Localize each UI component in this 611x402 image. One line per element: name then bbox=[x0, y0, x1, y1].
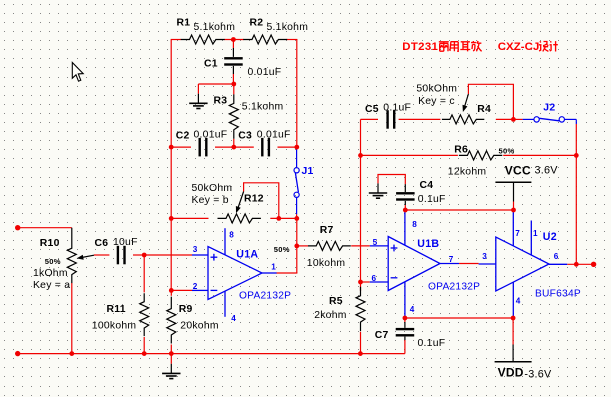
resistor R3 bbox=[229, 94, 238, 138]
wire C4 top lead bbox=[404, 184, 406, 192]
value R10 1kOhm bbox=[33, 268, 68, 279]
svg-text:50kOhm: 50kOhm bbox=[416, 83, 457, 94]
wire U1B pin6 stub red bbox=[361, 281, 370, 283]
title CJK liang bbox=[439, 42, 449, 51]
op-amp U1B plus bbox=[391, 245, 398, 252]
potentiometer R4 bbox=[442, 115, 484, 124]
svg-text:1: 1 bbox=[533, 229, 538, 238]
label R11 bbox=[107, 304, 126, 315]
label C1 bbox=[204, 59, 218, 70]
svg-text:R10: R10 bbox=[40, 238, 60, 249]
pin 4 stub U2 bbox=[512, 282, 514, 316]
value R5 2kohm bbox=[314, 310, 346, 321]
svg-text:7: 7 bbox=[515, 229, 520, 238]
node R6-J2 bbox=[574, 153, 579, 158]
svg-text:5.1kohm: 5.1kohm bbox=[194, 22, 236, 33]
value U2 BUF634P bbox=[535, 288, 581, 299]
title CJK er bbox=[460, 42, 470, 52]
wire C7 top lead bbox=[404, 318, 406, 328]
value U1B OPA2132P bbox=[428, 281, 480, 292]
resistor R6 bbox=[459, 151, 502, 160]
wire R1 left bbox=[171, 39, 181, 41]
svg-text:0.1uF: 0.1uF bbox=[418, 194, 446, 205]
node C3-J1 bbox=[294, 145, 299, 150]
svg-text:C2: C2 bbox=[176, 130, 190, 141]
value R12 Key = b bbox=[192, 195, 229, 206]
node U2 out-R6 bbox=[574, 262, 579, 267]
svg-text:2kohm: 2kohm bbox=[314, 310, 346, 321]
node C6-R11-pin3 bbox=[142, 253, 147, 258]
wire C7 node to VDD node bbox=[405, 317, 513, 319]
wire node to U1A pin3 bbox=[144, 254, 192, 256]
svg-text:C1: C1 bbox=[204, 59, 218, 70]
value R4 Key = c bbox=[418, 96, 455, 107]
wire C6 to node bbox=[133, 254, 144, 256]
pin 5 stub U1B bbox=[370, 245, 388, 247]
pin label 4 U2 bbox=[516, 297, 521, 306]
wire R7 left bbox=[297, 245, 308, 247]
title CJK she bbox=[539, 41, 549, 51]
svg-text:C5: C5 bbox=[365, 104, 379, 115]
wire J2 right stub bbox=[565, 119, 577, 124]
percent R12 50% bbox=[274, 245, 290, 254]
svg-text:1kOhm: 1kOhm bbox=[33, 268, 68, 279]
capacitor C2 bbox=[199, 138, 208, 157]
wire C2-C3 mid right bbox=[234, 146, 254, 148]
svg-text:10kohm: 10kohm bbox=[307, 258, 345, 269]
wire ground2 elbow bbox=[378, 175, 405, 185]
pin label 1 U2 bbox=[533, 229, 538, 238]
node R1-R2-C1 bbox=[231, 37, 236, 42]
svg-text:6: 6 bbox=[554, 252, 559, 261]
pin label 7 U1B bbox=[449, 255, 454, 264]
wire R12 right bbox=[270, 217, 297, 219]
op-amp U1B bbox=[388, 237, 440, 291]
pin 3 stub U1A bbox=[192, 254, 208, 256]
terminal rail left bbox=[15, 351, 20, 356]
wire R11 bottom bbox=[143, 337, 145, 354]
label C7 bbox=[375, 330, 389, 341]
op-amp U1A minus bbox=[211, 289, 218, 291]
pin label 6 U2 bbox=[554, 252, 559, 261]
wire C1 top lead bbox=[232, 40, 234, 57]
wire R1-R2 middle bbox=[224, 39, 244, 41]
wiper R10 bbox=[77, 255, 94, 260]
svg-text:4: 4 bbox=[516, 297, 521, 306]
wire R4 wiper loop bbox=[468, 84, 513, 119]
label R1 bbox=[177, 18, 191, 29]
wire R10 wiper to C6 bbox=[94, 254, 109, 256]
svg-text:5.1kohm: 5.1kohm bbox=[267, 22, 309, 33]
svg-text:R7: R7 bbox=[320, 225, 334, 236]
resistor R5 bbox=[356, 287, 365, 331]
resistor R9 bbox=[167, 297, 176, 344]
svg-text:R9: R9 bbox=[179, 304, 193, 315]
capacitor C3 bbox=[261, 138, 270, 157]
svg-text:50kOhm: 50kOhm bbox=[192, 183, 233, 194]
wire R6 left bbox=[361, 154, 458, 156]
power VDD symbol bbox=[495, 345, 532, 362]
pin 4 stub U1A bbox=[224, 291, 226, 317]
wire R5 bottom bbox=[360, 332, 362, 354]
value C3 0.01uF bbox=[257, 129, 291, 140]
svg-text:C6: C6 bbox=[95, 238, 109, 249]
svg-text:OPA2132P: OPA2132P bbox=[239, 290, 291, 301]
wire C7 bottom lead bbox=[404, 337, 406, 354]
wire R3 bottom bbox=[233, 139, 235, 147]
svg-text:2: 2 bbox=[193, 282, 198, 291]
label J1 bbox=[302, 166, 314, 177]
pin 3 stub U2 bbox=[479, 263, 496, 265]
pin 4 stub U1B bbox=[404, 282, 406, 317]
svg-text:R3: R3 bbox=[214, 96, 228, 107]
svg-text:OPA2132P: OPA2132P bbox=[428, 281, 480, 292]
value C6 10uF bbox=[113, 237, 138, 248]
svg-text:R1: R1 bbox=[177, 18, 191, 29]
svg-text:U1A: U1A bbox=[236, 248, 258, 260]
svg-text:12kohm: 12kohm bbox=[448, 167, 486, 178]
svg-text:CXZ-CJ: CXZ-CJ bbox=[498, 41, 540, 53]
wire U2 output right bbox=[567, 263, 593, 265]
svg-text:BUF634P: BUF634P bbox=[535, 288, 581, 299]
wire ground 3 stem bbox=[170, 354, 172, 364]
pin label 3 U2 bbox=[482, 252, 487, 261]
svg-text:20kohm: 20kohm bbox=[180, 320, 218, 331]
pin label 8 U1B bbox=[412, 220, 417, 229]
pin 8 stub U1B bbox=[404, 211, 406, 246]
capacitor C6 bbox=[117, 246, 126, 264]
op-amp U1A plus bbox=[211, 254, 218, 261]
wire R9 top bbox=[170, 290, 172, 295]
value R11 100kohm bbox=[92, 320, 137, 331]
pin label 5 U1B bbox=[373, 238, 378, 247]
label C5 bbox=[365, 104, 379, 115]
svg-text:3.6V: 3.6V bbox=[535, 164, 559, 176]
title CJK fang bbox=[471, 41, 482, 51]
wire R6 right bbox=[503, 154, 576, 156]
potentiometer R12 bbox=[218, 214, 261, 223]
svg-text:J1: J1 bbox=[302, 166, 314, 177]
ground 3 bbox=[162, 364, 180, 379]
value R9 20kohm bbox=[180, 320, 218, 331]
label R12 bbox=[244, 194, 264, 205]
pin 2 stub U1A bbox=[192, 289, 208, 291]
wire VCC stem red bbox=[513, 202, 515, 211]
svg-text:0.01uF: 0.01uF bbox=[194, 129, 228, 140]
wire J2 left stub bbox=[513, 118, 534, 120]
node R9-pin2 bbox=[169, 288, 174, 293]
label R4 bbox=[477, 104, 491, 115]
capacitor C7 bbox=[396, 328, 415, 337]
svg-text:C3: C3 bbox=[238, 130, 252, 141]
resistor R1 bbox=[181, 35, 225, 44]
pin label 4 U1A bbox=[231, 314, 236, 323]
wire J1 top stub bbox=[296, 150, 298, 168]
wire VDD stem red bbox=[512, 318, 514, 345]
switch J1 bbox=[294, 168, 299, 198]
value C7 0.1uF bbox=[418, 338, 446, 349]
node VDD-pin4 bbox=[511, 316, 516, 321]
pin 8 stub U1A bbox=[224, 228, 226, 255]
svg-text:4: 4 bbox=[231, 314, 236, 323]
svg-text:R5: R5 bbox=[329, 296, 343, 307]
svg-text:3: 3 bbox=[193, 245, 198, 254]
pin 1 stub U2 bbox=[530, 221, 532, 256]
wire C5 to R4 bbox=[399, 118, 441, 120]
pin label 2 U1A bbox=[193, 282, 198, 291]
value R12 50kOhm bbox=[192, 183, 233, 194]
svg-text:R12: R12 bbox=[244, 194, 264, 205]
label R9 bbox=[179, 304, 193, 315]
potentiometer R10 bbox=[67, 228, 76, 283]
svg-text:4: 4 bbox=[410, 305, 415, 314]
node R9-ground bbox=[169, 351, 174, 356]
title CJK ji bbox=[550, 41, 558, 51]
title text CXZ-CJ bbox=[498, 41, 540, 53]
svg-text:-3.6V: -3.6V bbox=[524, 369, 552, 381]
svg-text:0.01uF: 0.01uF bbox=[248, 67, 282, 78]
value C1 0.01uF bbox=[248, 67, 282, 78]
node R7 left bbox=[294, 244, 299, 249]
wire R10 bottom bbox=[71, 283, 73, 354]
pin 6 stub U1B bbox=[370, 281, 388, 283]
pin 7 stub U1B bbox=[440, 263, 459, 265]
svg-text:R6: R6 bbox=[454, 144, 468, 155]
svg-text:50%: 50% bbox=[274, 245, 290, 254]
node U1B pin6 bbox=[358, 280, 363, 285]
svg-text:50%: 50% bbox=[499, 147, 515, 156]
value R6 12kohm bbox=[448, 167, 486, 178]
wire R2 right bbox=[287, 39, 298, 41]
value R1 5.1kohm bbox=[194, 22, 236, 33]
node R12 left bbox=[169, 216, 174, 221]
node R12-J1 bbox=[294, 216, 299, 221]
pin 7 stub U2 bbox=[512, 211, 514, 246]
wire R7 right bbox=[351, 245, 370, 247]
wire net B vertical upper x=297 bbox=[296, 39, 298, 150]
label VCC bbox=[505, 163, 531, 177]
wire net B vertical lower x=297 bbox=[296, 218, 298, 273]
value C2 0.01uF bbox=[194, 129, 228, 140]
wire J1 bottom stub bbox=[296, 197, 298, 214]
wire C2 left bbox=[171, 146, 191, 148]
value R3 5.1kohm bbox=[242, 102, 284, 113]
label U1A bbox=[236, 248, 258, 260]
label C2 bbox=[176, 130, 190, 141]
value VCC 3.6V bbox=[535, 164, 559, 176]
node C5-R6 bbox=[358, 153, 363, 158]
svg-text:5.1kohm: 5.1kohm bbox=[242, 102, 284, 113]
title CJK yong bbox=[450, 42, 458, 52]
wire R12 wiper loop bbox=[244, 183, 279, 219]
wire R4 right bbox=[496, 118, 514, 120]
node R5 bottom bbox=[358, 351, 363, 356]
label U2 bbox=[543, 231, 557, 243]
op-amp U2 bbox=[496, 237, 549, 291]
pin label 8 U1A bbox=[229, 230, 234, 239]
capacitor C5 bbox=[386, 110, 395, 129]
wire C1 bottom lead bbox=[232, 66, 234, 84]
pin label 1 U1A bbox=[271, 262, 276, 271]
svg-text:Key = b: Key = b bbox=[192, 195, 229, 206]
node VCC-pin7 bbox=[511, 208, 516, 213]
ground 2 bbox=[369, 183, 387, 198]
mouse cursor bbox=[72, 63, 83, 82]
power VCC symbol bbox=[495, 182, 531, 201]
percent R4 50% bbox=[499, 147, 515, 156]
value U1A OPA2132P bbox=[239, 290, 291, 301]
svg-text:R2: R2 bbox=[250, 18, 264, 29]
svg-text:5: 5 bbox=[373, 238, 378, 247]
pin label 3 U1A bbox=[193, 245, 198, 254]
svg-text:VCC: VCC bbox=[505, 163, 531, 177]
wire R12 left bbox=[171, 217, 208, 219]
node R12 wiper bbox=[276, 216, 281, 221]
label R3 bbox=[214, 96, 228, 107]
wire C3 right bbox=[278, 146, 298, 148]
node C4-VCC wire bbox=[403, 208, 408, 213]
svg-text:100kohm: 100kohm bbox=[92, 320, 137, 331]
svg-text:50%: 50% bbox=[45, 257, 61, 266]
pin 6 stub U2 bbox=[549, 263, 567, 265]
wire ground rail bbox=[18, 353, 405, 355]
ground 1 bbox=[189, 94, 207, 109]
wiper R12 bbox=[236, 192, 244, 214]
terminal output bbox=[591, 262, 596, 267]
terminal input top bbox=[15, 225, 20, 230]
percent R10 50% bbox=[45, 257, 61, 266]
label C6 bbox=[95, 238, 109, 249]
wire R10 top bbox=[18, 227, 72, 229]
wire U1B out red bbox=[459, 263, 479, 265]
wire VCC node to C4 node bbox=[405, 209, 514, 211]
svg-text:0.1uF: 0.1uF bbox=[383, 103, 411, 114]
svg-text:C7: C7 bbox=[375, 330, 389, 341]
wire C2-C3 mid left bbox=[215, 146, 234, 148]
label R2 bbox=[250, 18, 264, 29]
resistor R11 bbox=[140, 293, 149, 336]
wire C4 bottom lead bbox=[404, 201, 406, 210]
svg-text:6: 6 bbox=[372, 274, 377, 283]
wire net D vertical x=576.3 bbox=[575, 124, 577, 264]
pin label 7 U2 bbox=[515, 229, 520, 238]
node R4-J2 bbox=[511, 117, 516, 122]
node R11 bottom bbox=[142, 351, 147, 356]
resistor R7 bbox=[308, 241, 351, 250]
pin label 6 U1B bbox=[372, 274, 377, 283]
value R2 5.1kohm bbox=[267, 22, 309, 33]
value R10 Key = a bbox=[33, 280, 70, 291]
label U1B bbox=[417, 238, 439, 250]
label R5 bbox=[329, 296, 343, 307]
value C4 0.1uF bbox=[418, 194, 446, 205]
node R10 bottom bbox=[69, 351, 74, 356]
wiper R4 bbox=[463, 94, 469, 112]
wire R9 bottom bbox=[170, 345, 172, 354]
op-amp U1A bbox=[208, 247, 262, 300]
title text DT231 bbox=[402, 41, 438, 53]
node C1-ground-R3 bbox=[231, 82, 236, 87]
label R7 bbox=[320, 225, 334, 236]
svg-text:1: 1 bbox=[271, 262, 276, 271]
svg-text:U1B: U1B bbox=[417, 238, 439, 250]
wire R3 top bbox=[233, 84, 235, 94]
capacitor C1 bbox=[224, 57, 243, 66]
wire C5 left bbox=[361, 118, 379, 120]
wire R11 top bbox=[143, 255, 145, 292]
switch J2 bbox=[534, 117, 565, 122]
node C7-pin4 bbox=[403, 316, 408, 321]
value R7 10kohm bbox=[307, 258, 345, 269]
op-amp U1B minus bbox=[391, 277, 398, 279]
capacitor C4 bbox=[396, 192, 415, 201]
label C4 bbox=[420, 180, 434, 191]
svg-text:J2: J2 bbox=[543, 102, 555, 113]
svg-text:0.1uF: 0.1uF bbox=[418, 338, 446, 349]
svg-text:8: 8 bbox=[229, 230, 234, 239]
label VDD bbox=[498, 366, 524, 380]
pin 1 stub U1A bbox=[262, 272, 277, 274]
svg-text:Key = c: Key = c bbox=[418, 96, 455, 107]
label C3 bbox=[238, 130, 252, 141]
value R4 50kOhm bbox=[416, 83, 457, 94]
wire to ground 1 bbox=[198, 84, 234, 94]
resistor R2 bbox=[243, 35, 287, 44]
value C5 0.1uF bbox=[383, 103, 411, 114]
svg-text:Key = a: Key = a bbox=[33, 280, 70, 291]
wire net A vertical x=171 bbox=[170, 40, 172, 291]
svg-text:C4: C4 bbox=[420, 180, 434, 191]
wire U1A output elbow bbox=[276, 272, 297, 274]
wire net C vertical x=360.5 bbox=[360, 119, 362, 291]
label J2 bbox=[543, 102, 555, 113]
svg-text:DT231: DT231 bbox=[402, 41, 438, 53]
value VDD -3.6V bbox=[524, 369, 552, 381]
label R6 bbox=[454, 144, 468, 155]
svg-text:10uF: 10uF bbox=[113, 237, 138, 248]
node C2 left bbox=[169, 145, 174, 150]
wire J1 to node bbox=[296, 214, 298, 218]
svg-text:R11: R11 bbox=[107, 304, 126, 315]
wire to U1A pin2 bbox=[171, 289, 192, 291]
svg-text:0.01uF: 0.01uF bbox=[257, 129, 291, 140]
node C2-C3-R3 bbox=[231, 145, 236, 150]
svg-text:U2: U2 bbox=[543, 231, 557, 243]
svg-text:7: 7 bbox=[449, 255, 454, 264]
svg-text:VDD: VDD bbox=[498, 366, 524, 380]
label R10 bbox=[40, 238, 60, 249]
svg-text:3: 3 bbox=[482, 252, 487, 261]
pin label 4 U1B bbox=[410, 305, 415, 314]
svg-text:8: 8 bbox=[412, 220, 417, 229]
svg-text:R4: R4 bbox=[477, 104, 491, 115]
